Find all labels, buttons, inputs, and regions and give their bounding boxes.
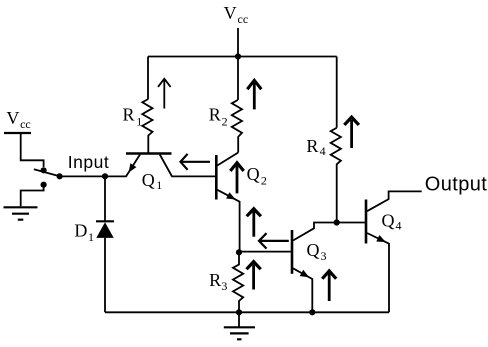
svg-text:4: 4 [320,144,326,158]
svg-text:Output: Output [425,174,487,196]
svg-text:1: 1 [156,178,162,192]
svg-text:Q: Q [382,210,395,230]
svg-text:cc: cc [238,12,249,26]
svg-text:D: D [74,221,87,241]
svg-text:Q: Q [142,170,155,190]
svg-text:V: V [6,108,19,128]
svg-text:V: V [224,3,237,23]
svg-text:1: 1 [136,114,142,128]
svg-text:3: 3 [221,279,227,293]
svg-text:3: 3 [321,249,327,263]
svg-text:Q: Q [247,164,260,184]
svg-text:Input: Input [68,152,109,172]
svg-text:2: 2 [222,114,228,128]
svg-text:R: R [306,136,318,156]
svg-text:R: R [209,104,221,124]
svg-text:Q: Q [307,240,320,260]
svg-text:4: 4 [396,219,402,233]
svg-text:2: 2 [261,174,267,188]
svg-text:cc: cc [20,117,31,131]
svg-text:R: R [123,105,135,125]
svg-text:1: 1 [88,230,94,244]
svg-text:R: R [209,270,221,290]
